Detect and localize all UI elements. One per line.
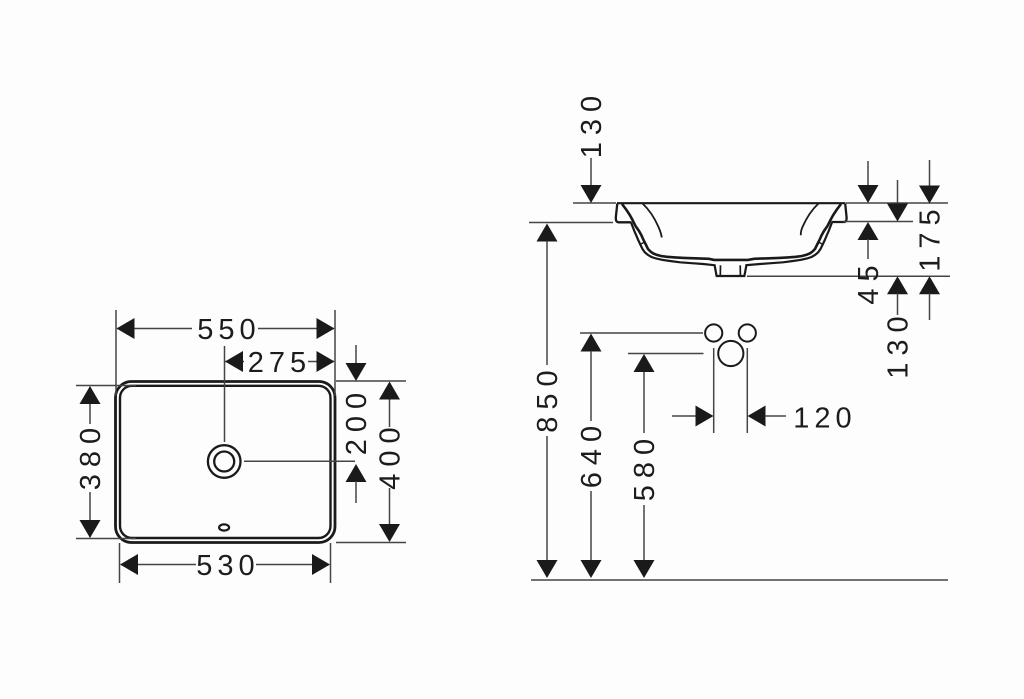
drain inner circle [214, 452, 234, 472]
dimension 380 [75, 386, 136, 539]
tap hole extension 580 level [628, 353, 704, 355]
dimension 200 [336, 345, 406, 503]
svg-text:530: 530 [196, 550, 259, 582]
dimension 130 right [883, 180, 915, 379]
dimension 175 [915, 160, 947, 320]
svg-text:120: 120 [793, 403, 856, 435]
overflow slot [219, 524, 229, 530]
tap hole large circle [718, 341, 743, 366]
svg-text:200: 200 [341, 386, 373, 455]
svg-text:580: 580 [629, 432, 661, 501]
tap hole vertical line right [746, 348, 748, 433]
dimension 550 [116, 310, 335, 396]
basin rim top line [617, 202, 845, 204]
basin outer rounded rectangle [116, 382, 336, 543]
basin outer wall left [631, 222, 832, 276]
tap hole extension 640 level [580, 332, 703, 334]
tap hole small circle left [705, 324, 722, 341]
basin interior surface line [622, 204, 841, 260]
svg-text:380: 380 [75, 421, 107, 490]
dimension 530 [120, 543, 331, 583]
left corner silhouette curve [643, 204, 662, 238]
dimension 45 [853, 161, 885, 305]
dimension 275 [225, 347, 335, 379]
wall joint tick right [818, 242, 823, 245]
rim top extension left [573, 202, 616, 204]
svg-text:130: 130 [883, 309, 915, 378]
basin rim right section [832, 204, 847, 223]
drain stub inner walls [719, 265, 721, 275]
wall joint tick left [640, 242, 645, 245]
floor line [531, 579, 948, 581]
drain stub bottom extension [747, 275, 950, 277]
rim underside extension right [843, 221, 913, 223]
dimension 640 [576, 334, 608, 579]
svg-text:130: 130 [576, 89, 608, 158]
svg-text:550: 550 [197, 314, 260, 346]
drain center line to right [244, 460, 355, 462]
dimension 400 [336, 382, 407, 543]
dimension 850 [532, 224, 564, 579]
basin inner rim rectangle [120, 386, 331, 538]
rim top extension right [846, 202, 948, 204]
tap hole small circle right [739, 324, 756, 341]
svg-text:640: 640 [576, 419, 608, 488]
svg-text:400: 400 [375, 420, 407, 489]
right corner silhouette curve [801, 204, 819, 236]
tap hole vertical line left [713, 348, 715, 433]
rim underside extension left [529, 222, 613, 224]
dimension 120 [672, 403, 857, 435]
svg-text:275: 275 [248, 347, 311, 379]
dimension 130 top [576, 89, 608, 203]
svg-text:850: 850 [532, 363, 564, 432]
svg-text:175: 175 [915, 202, 947, 271]
drain outer circle [208, 445, 241, 478]
centerline vertical [224, 346, 226, 442]
basin rim left section [616, 204, 632, 223]
svg-text:45: 45 [853, 258, 885, 304]
dimension 580 [629, 354, 661, 578]
